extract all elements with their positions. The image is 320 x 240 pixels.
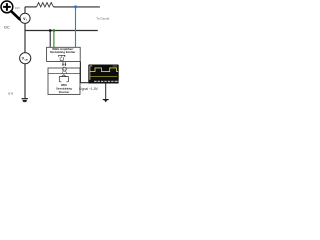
wire top rail from resistor to right open end [54, 6, 100, 8]
voltage source VCM [20, 53, 31, 64]
icon photodiode on U2 top edge [62, 67, 67, 73]
svg-text:Modulating Emitter: Modulating Emitter [50, 50, 76, 54]
node junction (black) on return rail [49, 29, 52, 32]
wire green branch down to box U1 [53, 31, 55, 48]
scope menu buttons row [94, 81, 118, 82]
svg-text:DC: DC [4, 26, 10, 30]
wire black branch down to box U1 [49, 31, 51, 48]
wire top rail from V1 to resistor [25, 6, 37, 8]
icon LED emitter inside U1 [59, 55, 65, 60]
scope screen left edge highlight [89, 66, 91, 80]
voltage source V1 [20, 13, 30, 23]
svg-text:RW: RW [15, 6, 20, 10]
oscilloscope bezel [88, 65, 118, 84]
inner top line of U2 [48, 73, 80, 75]
wire scope to chassis ground [105, 84, 107, 100]
svg-text:Receiver: Receiver [59, 91, 69, 94]
node junction (green) on return rail [53, 29, 56, 32]
wire second rail (return) [25, 30, 98, 32]
wire V1 top stub [24, 7, 26, 13]
ground (left) [22, 99, 29, 103]
magnifier zoom-in icon overlay [1, 1, 20, 19]
wire VCM bottom down to ground [24, 64, 26, 99]
wire from U1 output down along box right edges to scope [80, 62, 88, 83]
block U2 WBG Demodulating Receiver [48, 68, 80, 94]
svg-text:Signal ~1-5V: Signal ~1-5V [79, 87, 99, 91]
light emission arrows between U1 and U2 [62, 62, 66, 66]
scope flat trace CH2 [90, 76, 117, 78]
block U1 WBG Amplifier / Modulating Emitter [47, 47, 81, 61]
scope header readout marks [90, 65, 118, 66]
node junction (blue) on top rail [74, 5, 77, 8]
wire V1 bottom to VCM top [24, 23, 26, 52]
resistor (series, unlabeled) [37, 3, 54, 7]
svg-text:To Circuit: To Circuit [96, 17, 109, 21]
ground (scope chassis) [103, 99, 109, 102]
icon photo receiver package inside U2 [59, 75, 68, 82]
label WBG Demodulating Receiver [56, 84, 72, 94]
oscilloscope screen [89, 65, 117, 80]
wire blue branch down to box U1 [75, 7, 77, 47]
scope square wave trace CH1 [90, 68, 118, 72]
label WBG Amplifier/Modulating Emitter [50, 47, 76, 54]
svg-text:CM: CM [25, 60, 28, 62]
svg-text:WBG: WBG [61, 84, 67, 87]
